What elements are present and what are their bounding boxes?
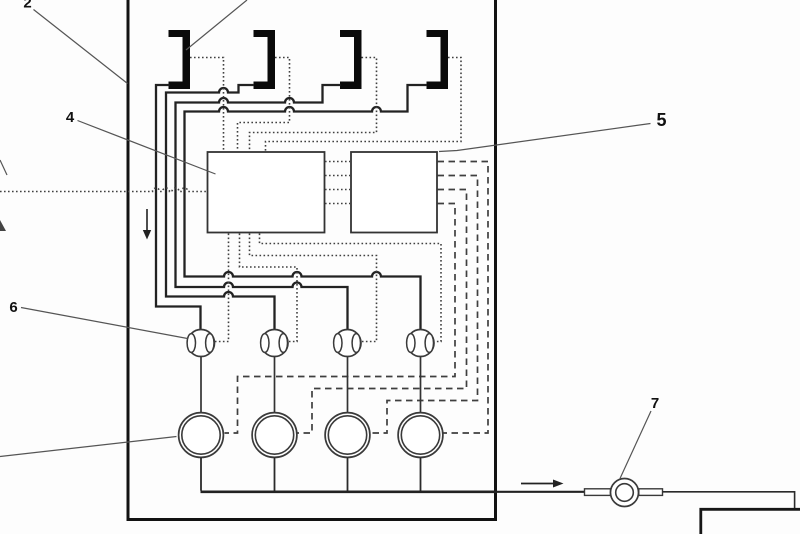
- pipe valve4 to pump4: [420, 357, 422, 413]
- svg-text:4: 4: [66, 109, 75, 126]
- pump 1: [179, 413, 224, 458]
- leader for label 7: [620, 411, 651, 479]
- valve 2: [261, 330, 288, 357]
- leader for pump label (cut off): [0, 437, 177, 457]
- burner bracket 1: [169, 30, 191, 89]
- control line box5 to pump3: [371, 176, 478, 434]
- signal bus box4 to box5: [325, 162, 350, 204]
- pipe pump2 drop: [274, 457, 276, 490]
- pump 3: [325, 413, 370, 458]
- burner bracket 4: [427, 30, 449, 89]
- signal line box4 to valve1: [215, 234, 229, 342]
- unit box 5: [351, 152, 437, 233]
- pipe bracket2 to valve2: [166, 85, 275, 330]
- pipe bracket4 to valve4: [185, 85, 428, 330]
- signal line bracket2 to box4: [238, 58, 290, 152]
- signal line box4 to valve3: [250, 234, 377, 342]
- flow arrow outside vessel: [521, 480, 564, 488]
- svg-text:5: 5: [656, 110, 666, 130]
- pipe pump3 drop: [347, 457, 349, 490]
- pipe bracket3 to valve3: [176, 85, 348, 330]
- pipe manifold to flowmeter: [496, 491, 585, 493]
- tank wall bottom right: [701, 509, 800, 534]
- control line box5 to pump4: [438, 162, 489, 434]
- down arrow inside vessel: [143, 209, 151, 240]
- leader wedge at left edge (cut off): [0, 220, 6, 231]
- leader stub at left edge (cut off): [0, 160, 7, 175]
- valve 1: [187, 330, 214, 357]
- signal line bracket4 to box4: [266, 58, 462, 152]
- valve 4: [407, 330, 434, 357]
- control line box5 to pump1: [225, 204, 456, 434]
- pipe valve1 to pump1: [200, 357, 202, 413]
- leader for label 4: [78, 121, 216, 175]
- svg-text:7: 7: [651, 395, 659, 412]
- leader for label 2: [34, 10, 128, 84]
- vessel 2 outer wall: [128, 0, 496, 520]
- pipe flowmeter to tank: [663, 492, 795, 508]
- leader for label 3 (cut off): [186, 0, 247, 50]
- svg-text:2: 2: [23, 0, 31, 12]
- pump 4: [398, 413, 443, 458]
- valve 3: [334, 330, 361, 357]
- discharge manifold: [201, 490, 497, 493]
- leader for label 6: [21, 308, 188, 339]
- leader for label 5: [439, 124, 651, 152]
- flowmeter left flange: [585, 489, 611, 496]
- pipe valve3 to pump3: [347, 357, 349, 413]
- flowmeter 7 body: [611, 479, 639, 507]
- pipe pump4 drop: [420, 457, 422, 490]
- pipe bracket1 to valve1: [156, 85, 201, 330]
- signal line box4 to valve4: [260, 234, 442, 342]
- burner bracket 3: [340, 30, 362, 89]
- signal line bracket3 to box4: [250, 58, 377, 152]
- pipe pump1 drop: [200, 457, 202, 490]
- signal line bracket1 to box4: [190, 58, 224, 152]
- control line box5 to pump2: [298, 190, 467, 434]
- flowmeter right flange: [639, 489, 663, 496]
- svg-text:6: 6: [9, 299, 17, 316]
- controller box 4: [208, 152, 325, 233]
- signal line box4 to valve2: [240, 234, 298, 342]
- burner bracket 2: [254, 30, 276, 89]
- pipe valve2 to pump2: [274, 357, 276, 413]
- pump 2: [252, 413, 297, 458]
- signal line from left edge to box4: [0, 188, 207, 192]
